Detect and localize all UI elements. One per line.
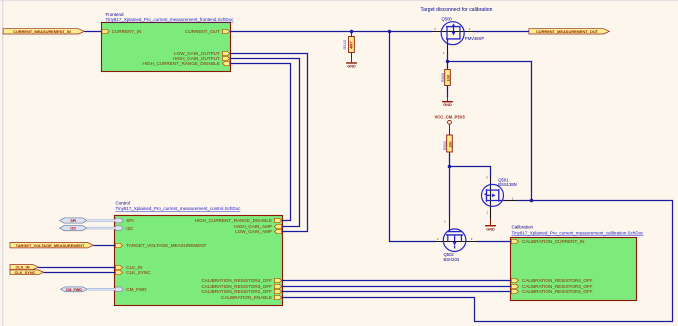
wire R500 bottom to GND [447, 87, 449, 98]
wire CLK_IN to Control [38, 267, 115, 269]
sheet symbol Frontend [102, 12, 235, 72]
wire CALIBRATION_RESISTOR3_OFF [282, 286, 512, 288]
power port VCC_CM_P3V3 [434, 114, 465, 129]
sheet entry CALIBRATION_ENABLE [221, 295, 282, 300]
ground GND (under Q501) [485, 219, 496, 231]
wire junction to R500 top [447, 62, 449, 69]
wire LOW_GAIN_OUTPUT to LOW_GAIN_AMP [230, 54, 308, 232]
wire CALIBRATION_RESISTOR4_OFF [282, 280, 512, 282]
resistor R500 [440, 66, 450, 90]
svg-text:VCC_CM_P3V3: VCC_CM_P3V3 [434, 114, 465, 119]
sheet entry CALIBRATION_RESISTOR2_OFF (calibration) [511, 289, 593, 294]
svg-text:CURRENT_MEASUREMENT_IN: CURRENT_MEASUREMENT_IN [13, 29, 71, 34]
node junction at vertical drop to Q502 [388, 30, 391, 33]
wire junction down to Q502 gate [449, 167, 451, 217]
svg-text:CURRENT_MEASUREMENT_OUT: CURRENT_MEASUREMENT_OUT [536, 29, 599, 34]
sheet entry CM_FWD (harness) [115, 287, 147, 292]
svg-text:CLK_SYNC: CLK_SYNC [15, 270, 36, 275]
svg-text:GND: GND [443, 103, 452, 107]
svg-text:PMV48XP: PMV48XP [465, 36, 485, 41]
wire Q500 drain to CURRENT_MEASUREMENT_OUT [473, 31, 529, 33]
sheet entry CURRENT_IN [102, 29, 141, 34]
wire vertical from top rail down to Q502 source [390, 32, 437, 242]
wire Q502 drain to CALIBRATION_CURRENT_IN [477, 241, 512, 243]
svg-text:4M7: 4M7 [350, 41, 354, 48]
sheet entry CLK_IN [115, 265, 142, 270]
svg-text:CALIBRATION_RESISTOR4_OFF: CALIBRATION_RESISTOR4_OFF [522, 278, 593, 283]
svg-text:CALIBRATION_RESISTOR2_OFF: CALIBRATION_RESISTOR2_OFF [201, 289, 272, 294]
harness port SPI [60, 218, 87, 223]
sheet entry CURRENT_OUT [185, 29, 230, 34]
svg-text:TARGET_VOLTAGE_MEASUREMENT: TARGET_VOLTAGE_MEASUREMENT [126, 243, 206, 248]
wire CURRENT_MEASUREMENT_IN to Frontend [84, 31, 101, 33]
sheet entry CLK_SYNC [115, 270, 151, 275]
wire CALIBRATION_RESISTOR2_OFF [282, 291, 512, 293]
sheet symbol Calibration [511, 225, 645, 301]
wire harness SPI link [87, 219, 116, 222]
sheet entry CALIBRATION_RESISTOR3_OFF (calibration) [511, 284, 593, 289]
svg-text:10K: 10K [448, 141, 452, 148]
wire HIGH_CURRENT_RANGE_DISABLE net [230, 64, 291, 221]
wire CLK_SYNC to Control [44, 272, 116, 274]
svg-text:Control: Control [116, 200, 131, 205]
svg-text:CM_FWD: CM_FWD [126, 287, 147, 292]
svg-text:R501: R501 [442, 141, 447, 150]
svg-text:Q500: Q500 [442, 16, 453, 21]
wire TARGET_VOLTAGE_MEASUREMENT to Control [93, 245, 115, 247]
transistor Q502 BSH203 [436, 216, 478, 262]
transistor Q500 PMV48XP [432, 16, 485, 53]
port CLK_SYNC [10, 270, 44, 275]
wire gate junction to right and down to Q501 gate net [448, 62, 532, 201]
resistor R543 [342, 32, 354, 59]
wire harness I2C link [87, 227, 116, 230]
svg-text:CM_FWD: CM_FWD [66, 288, 83, 292]
wire junction to Q501 drain [450, 167, 491, 178]
svg-text:CLK_SYNC: CLK_SYNC [126, 270, 151, 275]
svg-text:Tiny817_Xplained_Pro_current_m: Tiny817_Xplained_Pro_current_measurement… [116, 206, 242, 211]
sheet entry HIGH_GAIN_AMP [234, 224, 281, 229]
sheet entry LOW_GAIN_AMP [235, 229, 281, 234]
sheet entry CALIBRATION_RESISTOR3_OFF (control) [201, 284, 281, 289]
svg-text:Tiny817_Xplained_Pro_current_m: Tiny817_Xplained_Pro_current_measurement… [512, 230, 645, 235]
harness port I2C [60, 226, 87, 231]
sheet entry TARGET_VOLTAGE_MEASUREMENT [115, 243, 206, 248]
svg-text:HIGH_CURRENT_RANGE_DISABLE: HIGH_CURRENT_RANGE_DISABLE [195, 218, 272, 223]
sheet entry I2C (harness) [115, 226, 134, 231]
svg-text:CALIBRATION_ENABLE: CALIBRATION_ENABLE [221, 295, 272, 300]
sheet entry CALIBRATION_RESISTOR4_OFF (calibration) [511, 278, 593, 283]
wire Q501 gate to junction [517, 200, 532, 202]
svg-text:LOW_GAIN_AMP: LOW_GAIN_AMP [235, 229, 272, 234]
sheet entry LOW_GAIN_OUTPUT [174, 51, 230, 56]
wire CALIBRATION_ENABLE loop [282, 201, 673, 322]
resistor R501 [442, 129, 452, 156]
sheet entry HIGH_CURRENT_RANGE_DISABLE (control) [195, 218, 282, 223]
svg-text:HIGH_CURRENT_RANGE_DISABLE: HIGH_CURRENT_RANGE_DISABLE [142, 61, 219, 66]
svg-text:CURRENT_IN: CURRENT_IN [112, 29, 142, 34]
svg-text:CALIBRATION_RESISTOR2_OFF: CALIBRATION_RESISTOR2_OFF [522, 289, 593, 294]
svg-text:CURRENT_OUT: CURRENT_OUT [185, 29, 220, 34]
node junction Q501 gate / calibration enable net [530, 199, 534, 203]
svg-text:BSS138N: BSS138N [498, 182, 516, 187]
svg-text:BSH203: BSH203 [444, 257, 460, 262]
port CURRENT_MEASUREMENT_OUT [529, 29, 609, 34]
svg-text:R500: R500 [440, 72, 445, 82]
sheet entry HIGH_CURRENT_RANGE_DISABLE [142, 61, 229, 66]
wire Q500 gate down to junction [447, 53, 449, 63]
svg-text:Target disconnect for calibrat: Target disconnect for calibration [421, 7, 493, 13]
svg-text:I2C: I2C [126, 226, 134, 231]
svg-text:CALIBRATION_CURRENT_IN: CALIBRATION_CURRENT_IN [522, 239, 584, 244]
svg-text:SPI: SPI [126, 218, 133, 223]
wire HIGH_GAIN_OUTPUT to HIGH_GAIN_AMP [230, 59, 300, 227]
sheet entry HIGH_GAIN_OUTPUT [173, 56, 230, 61]
node junction at R543 top [350, 30, 353, 33]
svg-text:I2C: I2C [70, 227, 76, 231]
svg-text:Calibration: Calibration [512, 225, 534, 230]
node junction R501 / Q501 drain / Q502 gate [448, 165, 452, 169]
svg-text:TARGET_VOLTAGE_MEASUREMENT: TARGET_VOLTAGE_MEASUREMENT [16, 243, 85, 248]
ground GND (under R500) [442, 97, 453, 107]
sheet symbol Control [115, 200, 283, 305]
harness port CM_FWD [60, 287, 87, 292]
wire CURRENT_OUT to Q500 source [230, 31, 433, 33]
port CLK_IN [10, 265, 38, 270]
svg-text:SPI: SPI [70, 219, 76, 223]
svg-text:GND: GND [486, 227, 495, 231]
ground GND (under R543) [346, 59, 357, 69]
wire harness CM_FWD link [87, 288, 116, 291]
svg-text:10K: 10K [446, 74, 450, 81]
transistor Q501 BSS138N [482, 177, 518, 219]
port TARGET_VOLTAGE_MEASUREMENT [10, 243, 93, 248]
svg-text:R543: R543 [342, 40, 347, 49]
svg-text:GND: GND [347, 64, 356, 68]
sheet entry CALIBRATION_CURRENT_IN [511, 239, 584, 244]
wire R501 bottom to junction [449, 154, 451, 168]
sheet entry CALIBRATION_RESISTOR4_OFF (control) [201, 278, 281, 283]
sheet entry CALIBRATION_RESISTOR2_OFF (control) [201, 289, 281, 294]
port CURRENT_MEASUREMENT_IN [3, 29, 84, 34]
sheet entry SPI (harness) [115, 218, 133, 223]
svg-text:CALIBRATION_RESISTOR4_OFF: CALIBRATION_RESISTOR4_OFF [201, 278, 272, 283]
node junction Q500 gate / R500 [446, 60, 449, 63]
svg-text:Tiny817_Xplained_Pro_current_m: Tiny817_Xplained_Pro_current_measurement… [106, 17, 235, 22]
